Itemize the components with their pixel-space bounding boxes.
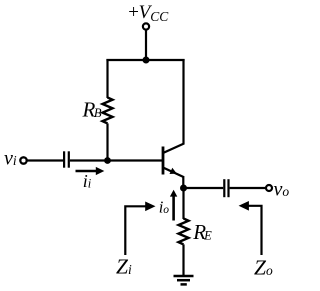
capacitor C1 [63,151,65,167]
wire: emitter node to C2 [184,187,224,189]
wire: left branch down to RB top [106,59,108,98]
junction: VCC rail [143,57,150,64]
wire: emitter foot down to output node [182,176,184,188]
wire: top rail horizontal [106,59,184,61]
resistor RE [179,219,189,245]
wire: VCC terminal to rail [145,30,147,60]
transistor Q1 emitter arrowhead [170,168,177,174]
wire: C1 to transistor base [70,159,163,161]
output terminal vo [266,185,272,191]
wire: RB bottom to base junction [106,123,108,161]
wire: RE bottom to ground [182,244,184,276]
transistor Q1 collector diagonal [163,144,184,154]
wire: emitter node down to RE [182,188,184,219]
wire: C2 to vo terminal [230,187,266,189]
input terminal vi [20,157,26,163]
wire: collector up to rail [182,59,184,145]
junction: base node [104,157,111,164]
wire: vi terminal to C1 [27,159,63,161]
arrow Zo pointer [248,206,262,255]
transistor Q1 emitter diagonal [163,168,184,178]
capacitor C2 [223,179,225,197]
resistor RB [103,98,113,124]
arrow ii [76,170,98,172]
ground [174,275,194,278]
junction: emitter output node [180,185,187,192]
transistor Q1 base bar [162,147,165,175]
arrow Zi pointer [125,206,146,255]
VCC terminal [143,23,149,29]
arrow io [172,196,175,221]
